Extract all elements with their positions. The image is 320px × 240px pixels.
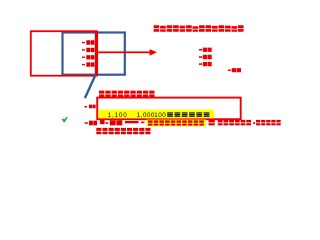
yellow band <box>98 110 214 119</box>
middle red label <box>99 91 104 98</box>
band kanji <box>167 112 173 113</box>
blue box <box>63 33 125 75</box>
bottom item B dash <box>85 122 88 124</box>
tiny rows inside overlap <box>82 42 85 43</box>
green check <box>62 117 67 122</box>
svg-text:1,100: 1,100 <box>108 112 128 119</box>
bottom item C text <box>110 120 116 125</box>
svg-text:100: 100 <box>154 112 166 119</box>
red callout box <box>97 98 241 120</box>
bottom plain red run <box>209 120 215 126</box>
bottom dash D <box>141 122 145 124</box>
blue callout line <box>85 75 95 97</box>
side label top <box>84 106 87 107</box>
red box thick right edge <box>95 31 98 75</box>
bottom yellow highlight <box>147 120 206 127</box>
svg-text:1,000: 1,000 <box>137 112 155 119</box>
right list items <box>199 49 202 51</box>
right list 4th item <box>228 70 231 72</box>
bottom item B text <box>89 121 93 126</box>
top red caption <box>154 25 160 32</box>
bottom item C dash <box>105 122 108 124</box>
red box (left) <box>31 31 97 75</box>
bottom long dash bar <box>125 121 139 123</box>
bottom highlight text <box>148 120 153 125</box>
red arrow <box>98 51 150 53</box>
bottom second line <box>96 128 101 134</box>
bottom solid chunk <box>100 120 105 124</box>
